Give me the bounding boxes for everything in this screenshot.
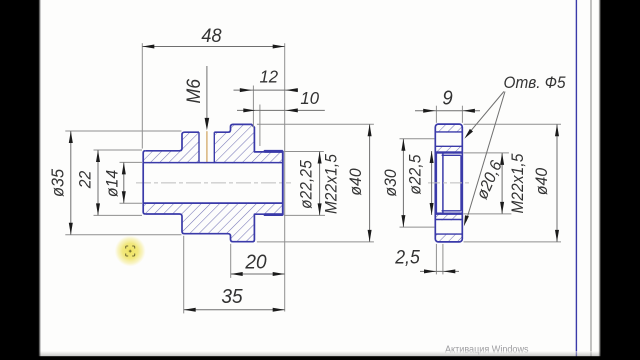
dim ø40 (main): dimension line xyxy=(369,124,371,242)
main view: thread crest band bottom xyxy=(265,213,283,216)
dim ø40 (right view): extension line bottom xyxy=(464,241,562,243)
main view: bore ø14 white cavity xyxy=(143,163,284,202)
dim ø40 (right view): dimension line xyxy=(556,124,558,242)
svg-text:10: 10 xyxy=(300,87,319,108)
dim ø35: extension line top xyxy=(65,130,181,132)
dim ø30: extension line top xyxy=(400,138,435,140)
svg-text:9: 9 xyxy=(442,88,453,110)
right view: thread minor line top xyxy=(442,154,461,156)
dim 9: dimension line with outside arrows xyxy=(415,110,480,112)
right view: lower Ф5 hole top edge xyxy=(435,219,462,221)
main view: left end face xyxy=(143,151,145,214)
svg-text:ø40: ø40 xyxy=(533,168,552,195)
dim ø40 (main): extension line bottom xyxy=(257,241,374,243)
main view: right end face xyxy=(282,151,284,216)
main view: M6 hole right wall xyxy=(213,132,215,162)
label M6: leader line xyxy=(206,66,208,120)
right view: outline xyxy=(435,124,462,242)
dim 10: dimension line with outside arrows xyxy=(237,109,325,111)
M6 hole axis (orange) xyxy=(206,131,208,162)
main view: bore ø14 upper edge xyxy=(143,162,283,164)
svg-text:М22х1,5: М22х1,5 xyxy=(323,154,341,214)
right view: thread bore top thick edge xyxy=(435,151,462,153)
svg-text:48: 48 xyxy=(201,24,222,46)
main view: M6 hole left wall xyxy=(198,132,200,162)
dim 48: extension line left xyxy=(141,43,143,148)
dim 35: dimension line xyxy=(184,309,285,311)
dim 48: dimension line xyxy=(142,46,284,48)
svg-text:Отв. Ф5: Отв. Ф5 xyxy=(504,75,566,93)
dim 20: extension line left xyxy=(230,244,232,278)
main view: axis centerline xyxy=(136,182,291,184)
leader Отв. Ф5: line to lower hole xyxy=(466,92,505,222)
dim 12: extension stub left xyxy=(252,86,254,128)
right view: axis centerline xyxy=(428,182,470,184)
right view: hole Ф5 white band bottom xyxy=(435,220,463,233)
dim ø20,6: extension line top xyxy=(463,152,509,154)
dim 20: dimension line xyxy=(231,273,285,275)
dim 2,5: extension line left xyxy=(435,244,437,275)
svg-text:ø14: ø14 xyxy=(103,170,122,197)
right view: hole Ф5 white band top xyxy=(435,133,463,146)
bottom black bar xyxy=(0,356,640,360)
dim 22: dimension line xyxy=(97,150,99,215)
right view: Ф5 hole bottom edge line xyxy=(435,145,462,147)
dim ø20,6: extension line bottom xyxy=(463,213,511,215)
dim ø22,25/M22x1,5: extension line bottom xyxy=(284,214,325,216)
svg-text:35: 35 xyxy=(221,285,243,308)
sheet edge line (gray) xyxy=(590,0,592,357)
left black bar xyxy=(0,0,39,360)
bottom gradient strip xyxy=(39,351,601,357)
dim ø35: extension line bottom xyxy=(65,234,181,236)
main view: bore ø14 lower edge xyxy=(143,202,283,204)
main view: thread crest band top (M22x1.5) xyxy=(265,150,283,153)
yellow cursor highlight xyxy=(115,236,146,267)
dim ø14: dimension line xyxy=(123,162,125,203)
dim 22: extension line bottom xyxy=(94,214,143,216)
main view: fitting body section, hatched silhouette xyxy=(143,124,283,241)
svg-text:20: 20 xyxy=(244,251,266,274)
dim ø22,25/M22x1,5: extension line top xyxy=(284,151,324,153)
svg-text:ø35: ø35 xyxy=(48,168,68,197)
dim 10: extension stub left xyxy=(259,105,261,147)
right view: counterbore bottom wall xyxy=(442,153,444,213)
svg-text:ø40: ø40 xyxy=(347,168,366,195)
svg-text:22: 22 xyxy=(76,171,95,190)
dim 2,5: extension line right xyxy=(442,244,444,275)
dim 9: extension line left xyxy=(435,106,437,123)
dim ø14: extension line bottom xyxy=(120,202,143,204)
dim ø40 (main): extension line top xyxy=(257,123,374,125)
dim 22: extension line top xyxy=(94,149,143,151)
main view: M6 hole white cavity xyxy=(199,131,214,162)
dim 12: dimension line with outside arrows xyxy=(234,89,299,91)
right view: nut/flange section silhouette xyxy=(435,124,462,242)
right view: thread bore bottom thick edge xyxy=(435,213,462,215)
right black bar xyxy=(601,0,640,360)
label M6: arrow xyxy=(205,118,210,130)
svg-text:М6: М6 xyxy=(182,78,204,103)
dim ø30: dimension line xyxy=(402,139,404,227)
right view: lower Ф5 hole bottom edge xyxy=(435,233,462,235)
cursor crosshair mark xyxy=(126,246,135,256)
right view: thread chamfer line right xyxy=(460,155,462,211)
right view: thread minor line bottom xyxy=(442,210,461,212)
leader Отв. Ф5: line to upper hole xyxy=(467,92,504,137)
dim ø20,6: dimension line xyxy=(501,153,503,214)
dim 48 / shared right extension line xyxy=(284,43,286,311)
dim ø30: extension line bottom xyxy=(400,226,435,228)
right view: counterbore face line xyxy=(436,153,438,213)
dim ø35: dimension line xyxy=(70,131,72,235)
dim ø22,5: dimension line xyxy=(431,151,433,215)
dim ø14: extension line top xyxy=(120,161,143,163)
drawing frame right border (navy) xyxy=(575,0,577,357)
svg-text:12: 12 xyxy=(259,66,278,87)
right view: Ф5 hole top edge line xyxy=(435,131,462,133)
dim 9: extension line right xyxy=(461,106,463,123)
dim 2,5: dimension line with outside arrows xyxy=(420,270,459,272)
svg-text:ø22,5: ø22,5 xyxy=(407,154,425,194)
svg-text:ø30: ø30 xyxy=(382,169,401,196)
main view: top profile outline xyxy=(145,124,283,151)
svg-text:ø22,25: ø22,25 xyxy=(298,160,316,209)
svg-text:М22х1,5: М22х1,5 xyxy=(510,153,528,213)
right view: bore white area xyxy=(436,154,462,213)
svg-text:2,5: 2,5 xyxy=(394,246,420,268)
main view: bottom profile outline xyxy=(145,214,283,242)
dim 35: extension line left xyxy=(183,236,185,314)
dim ø22,25: dimension line xyxy=(319,152,321,216)
dim ø40 (right view): extension line top xyxy=(464,123,562,125)
